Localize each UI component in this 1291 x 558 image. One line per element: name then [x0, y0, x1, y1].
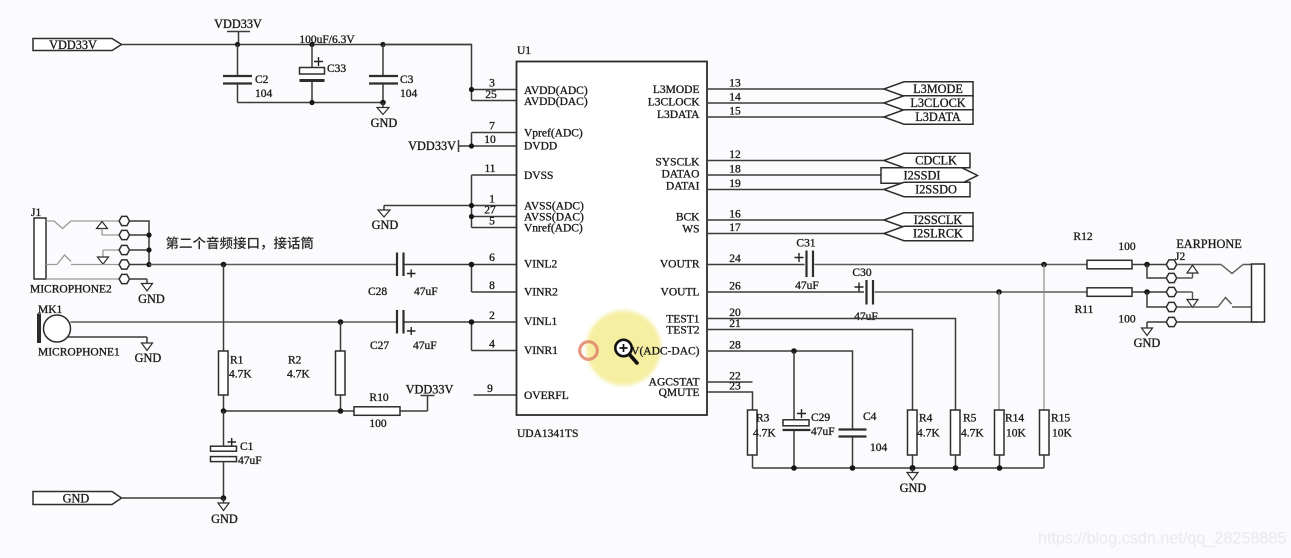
svg-text:GND: GND: [138, 292, 165, 306]
svg-text:19: 19: [729, 178, 741, 190]
wire R11 to J2: [1132, 291, 1166, 293]
net flag CDCLK: [884, 153, 970, 167]
pin J2-3: [1166, 287, 1176, 296]
svg-text:WS: WS: [682, 224, 699, 236]
wire pin14: [707, 102, 884, 104]
svg-text:21: 21: [729, 318, 741, 330]
capacitor C30: [852, 267, 877, 323]
resistor R12: [1073, 231, 1135, 269]
wire J2 pin4 branch: [1147, 292, 1166, 307]
wire AVSS ground: [384, 205, 472, 207]
wire R10 to VDD33V: [400, 396, 428, 412]
svg-text:V(ADC-DAC): V(ADC-DAC): [631, 346, 700, 358]
svg-text:GND: GND: [1134, 336, 1161, 350]
jack J1 switch arrow down: [98, 250, 120, 264]
svg-text:L3DATA: L3DATA: [915, 110, 961, 124]
ground symbol at J2: [1134, 322, 1161, 350]
svg-text:4.7K: 4.7K: [229, 369, 252, 381]
svg-text:104: 104: [870, 442, 888, 454]
pin J1-1: [119, 216, 129, 225]
wire pin9 stub: [474, 394, 517, 396]
svg-text:C30: C30: [852, 267, 871, 279]
svg-text:GND: GND: [135, 351, 162, 365]
svg-text:100uF/6.3V: 100uF/6.3V: [299, 34, 355, 46]
wire J2 sleeve: [1147, 321, 1258, 323]
svg-text:C3: C3: [400, 74, 414, 86]
net flag L3DATA: [884, 110, 973, 124]
wire MK1 to C27: [71, 321, 397, 323]
microphone MK1: [37, 314, 71, 344]
svg-text:C33: C33: [327, 63, 346, 75]
svg-text:47uF: 47uF: [238, 455, 262, 467]
svg-text:23: 23: [729, 381, 741, 393]
svg-text:GND: GND: [900, 481, 927, 495]
capacitor C28: [368, 253, 438, 299]
node junction pin2: [469, 319, 475, 325]
svg-text:C31: C31: [796, 238, 815, 250]
node junction R14 ground: [997, 465, 1003, 471]
ground symbol at rail: [900, 468, 927, 495]
wire pin13: [707, 88, 884, 90]
power port VDD33V top: [214, 17, 262, 45]
svg-text:C28: C28: [368, 286, 387, 298]
svg-text:CDCLK: CDCLK: [915, 154, 957, 168]
wire capacitor bottom bus: [238, 102, 384, 104]
svg-text:R14: R14: [1005, 413, 1024, 425]
ground symbol below C1: [211, 498, 238, 526]
svg-text:SYSCLK: SYSCLK: [655, 157, 700, 169]
svg-text:VINR2: VINR2: [524, 287, 558, 299]
svg-text:4.7K: 4.7K: [961, 428, 984, 440]
svg-text:3: 3: [489, 78, 495, 90]
svg-text:VOUTR: VOUTR: [660, 259, 700, 271]
wire C30 to R11: [875, 291, 1088, 293]
svg-text:C1: C1: [240, 441, 254, 453]
wire pin18: [707, 174, 881, 176]
wire GND flag to C1: [122, 497, 224, 499]
svg-text:VINL2: VINL2: [524, 259, 557, 271]
op-amp U1 UDA1341TS body: [517, 62, 708, 416]
node junction R15 tap: [1041, 262, 1047, 268]
node junction J1 pin2: [146, 232, 151, 237]
wire pins 11 1 27 5 bracket: [472, 175, 517, 228]
svg-text:9: 9: [487, 383, 493, 395]
wire pin26 to C30: [707, 291, 864, 293]
node junction pin1: [469, 203, 474, 208]
svg-text:L3MODE: L3MODE: [913, 82, 963, 96]
node junction R5 ground: [953, 465, 959, 471]
svg-text:15: 15: [729, 106, 741, 118]
resistor R5: [951, 410, 985, 468]
svg-text:R15: R15: [1051, 413, 1070, 425]
svg-text:C29: C29: [811, 412, 830, 424]
power flag GND: [33, 492, 122, 506]
svg-text:47uF: 47uF: [854, 311, 878, 323]
wire J1 to C28: [149, 264, 397, 266]
capacitor C3: [369, 45, 418, 103]
svg-text:10K: 10K: [1052, 428, 1073, 440]
svg-text:47uF: 47uF: [414, 286, 438, 298]
svg-text:GND: GND: [63, 492, 90, 506]
resistor R4: [908, 410, 941, 468]
connector J1 body: [34, 218, 46, 279]
svg-text:4.7K: 4.7K: [753, 428, 776, 440]
capacitor C33 100uF/6.3V: [299, 34, 355, 103]
jack J2 tip contact: [1177, 265, 1252, 274]
svg-text:47uF: 47uF: [811, 426, 835, 438]
svg-text:OVERFL: OVERFL: [524, 390, 569, 402]
svg-text:R2: R2: [288, 355, 302, 367]
svg-text:26: 26: [729, 281, 741, 293]
node junction J1 pin3: [146, 247, 151, 252]
svg-text:104: 104: [255, 88, 273, 100]
svg-text:R3: R3: [756, 413, 770, 425]
svg-text:2: 2: [489, 310, 495, 322]
node junction C4 ground: [850, 465, 856, 471]
node junction R14 tap: [996, 289, 1002, 295]
svg-text:AVDD(DAC): AVDD(DAC): [524, 96, 588, 108]
svg-text:16: 16: [729, 209, 741, 221]
svg-text:R4: R4: [919, 413, 933, 425]
resistor R11: [1075, 288, 1136, 326]
svg-text:U1: U1: [517, 45, 531, 57]
svg-text:MICROPHONE2: MICROPHONE2: [30, 284, 112, 296]
svg-text:4.7K: 4.7K: [287, 369, 310, 381]
svg-text:5: 5: [489, 216, 495, 228]
svg-text:Vpref(ADC): Vpref(ADC): [524, 128, 583, 140]
U1 left pin names: [524, 85, 588, 402]
wire pins 7 10 bracket: [472, 133, 517, 147]
node junction R2 top: [338, 319, 344, 325]
wire rail to IC pins 3 25: [383, 45, 516, 101]
node junction C1 ground: [221, 495, 227, 501]
wire pin16: [707, 219, 884, 221]
node junction on rail at C3: [380, 42, 385, 47]
node junction R1 bottom: [221, 408, 227, 414]
resistor R15: [1040, 410, 1073, 468]
svg-text:DVSS: DVSS: [524, 170, 553, 182]
svg-text:UDA1341TS: UDA1341TS: [517, 428, 578, 440]
svg-text:47uF: 47uF: [795, 280, 819, 292]
ground symbol at J1: [138, 284, 165, 307]
svg-text:VDD33V: VDD33V: [408, 139, 456, 153]
svg-text:DATAO: DATAO: [661, 169, 699, 181]
wire pin12: [707, 160, 884, 162]
svg-text:11: 11: [484, 163, 495, 175]
svg-text:L3DATA: L3DATA: [657, 109, 700, 121]
node junction J2 pin3: [1144, 289, 1150, 295]
svg-text:L3MODE: L3MODE: [653, 84, 700, 96]
resistor R3: [748, 410, 777, 468]
capacitor C2: [223, 45, 273, 103]
wire R14 drop: [998, 292, 1000, 410]
capacitor C29: [783, 351, 835, 468]
wire pin17: [707, 233, 884, 235]
pin J1-4: [119, 260, 129, 269]
svg-text:DVDD: DVDD: [524, 141, 557, 153]
svg-text:MICROPHONE1: MICROPHONE1: [38, 347, 120, 359]
svg-text:DATAI: DATAI: [666, 181, 700, 193]
svg-text:C4: C4: [863, 411, 877, 423]
svg-text:VDD33V: VDD33V: [406, 383, 454, 397]
wire pin24 to C31: [707, 264, 805, 266]
wire MK1 lower to ground: [68, 337, 148, 343]
svg-text:17: 17: [729, 222, 741, 234]
wire VDD33V rail: [122, 44, 472, 46]
resistor R1: [219, 265, 253, 412]
annotation chinese note: [166, 236, 313, 249]
capacitor C4: [839, 411, 888, 468]
svg-text:28: 28: [729, 340, 741, 352]
ground symbol below C3: [371, 103, 398, 131]
svg-text:104: 104: [400, 88, 418, 100]
svg-text:14: 14: [729, 92, 741, 104]
pin J1-2: [119, 230, 129, 239]
node junction on rail at C2: [235, 42, 240, 47]
node junction J2 pin1: [1144, 262, 1150, 268]
svg-text:4: 4: [489, 339, 495, 351]
pin J2-5: [1166, 317, 1176, 326]
net flag I2SSDI: [881, 168, 978, 183]
svg-text:8: 8: [489, 280, 495, 292]
pin J2-4: [1166, 302, 1176, 311]
capacitor C1: [211, 411, 262, 498]
svg-text:C27: C27: [370, 340, 389, 352]
svg-text:GND: GND: [371, 116, 398, 130]
net flag L3MODE: [884, 82, 973, 96]
node junction bottom bus at C3: [380, 100, 386, 106]
node junction on rail at C33: [309, 42, 314, 47]
svg-text:4.7K: 4.7K: [917, 428, 940, 440]
capacitor C27: [370, 310, 437, 352]
pin J2-1: [1166, 260, 1176, 269]
svg-text:12: 12: [729, 149, 741, 161]
svg-text:I2SSCLK: I2SSCLK: [914, 213, 963, 227]
wire pin21 to R4: [707, 330, 913, 411]
jack J1 sleeve wire: [46, 278, 119, 280]
cursor halo ring: [580, 342, 598, 360]
svg-text:QMUTE: QMUTE: [659, 387, 700, 399]
svg-text:MK1: MK1: [38, 304, 63, 316]
svg-text:VDD33V: VDD33V: [214, 17, 262, 31]
svg-text:https://blog.csdn.net/qq_28258: https://blog.csdn.net/qq_28258885: [1038, 530, 1286, 548]
svg-text:24: 24: [729, 253, 741, 265]
svg-text:13: 13: [729, 78, 741, 90]
jack J2 switch arrow up: [1177, 265, 1198, 278]
node junction R4 ground: [910, 465, 916, 471]
wire C27 to pin2: [405, 322, 517, 351]
svg-text:6: 6: [489, 252, 495, 264]
svg-text:100: 100: [1118, 241, 1136, 253]
jack J2 switch arrow down: [1177, 292, 1198, 307]
wire C28 to pin6: [405, 265, 517, 293]
wire bias rail: [224, 410, 355, 412]
node junction bottom bus at C33: [309, 100, 314, 105]
svg-text:L3CLOCK: L3CLOCK: [910, 96, 965, 110]
node junction pin10: [469, 143, 474, 148]
power label VDD33V at DVDD: [408, 139, 471, 153]
svg-text:VDD33V: VDD33V: [49, 38, 97, 52]
svg-text:GND: GND: [372, 218, 399, 232]
svg-text:47uF: 47uF: [413, 340, 437, 352]
node junction pin6: [469, 262, 475, 268]
U1 right pin names: [631, 84, 700, 399]
pin J2-2: [1166, 273, 1176, 282]
svg-text:J1: J1: [31, 207, 41, 219]
svg-text:L3CLOCK: L3CLOCK: [648, 97, 700, 109]
svg-text:10K: 10K: [1006, 428, 1027, 440]
wire pin28 to C4: [707, 351, 853, 429]
wire pin20 to R5: [707, 319, 956, 411]
svg-text:100: 100: [369, 418, 387, 430]
svg-text:C2: C2: [255, 74, 269, 86]
svg-text:GND: GND: [211, 512, 238, 526]
svg-text:100: 100: [1118, 314, 1136, 326]
svg-text:R12: R12: [1073, 231, 1092, 243]
svg-text:10: 10: [484, 134, 496, 146]
wire pin23 to R3: [707, 392, 753, 410]
wire pin15: [707, 116, 884, 118]
wire pin19: [707, 189, 884, 191]
jack J1 switch arrow up: [97, 222, 120, 236]
wire R15 drop: [1043, 265, 1045, 411]
svg-text:25: 25: [485, 89, 497, 101]
cursor magnifier: [615, 340, 637, 363]
wire J2 pin2 branch: [1147, 265, 1166, 279]
wire C31 to R12: [815, 264, 1088, 266]
power port VDD33V at R10: [406, 383, 454, 397]
power flag VDD33V: [33, 38, 122, 52]
node junction at R1 top: [221, 262, 227, 268]
svg-text:TEST2: TEST2: [666, 325, 699, 337]
ground symbol at AVSS: [372, 206, 399, 233]
resistor R10: [354, 392, 400, 430]
svg-text:R1: R1: [230, 355, 244, 367]
node junction pin27: [469, 214, 474, 219]
net flag L3CLOCK: [884, 96, 973, 110]
svg-text:I2SSDO: I2SSDO: [915, 183, 957, 197]
connector J2 body: [1252, 264, 1265, 322]
net flag I2SLRCK: [884, 226, 973, 240]
pin J1-5: [119, 274, 129, 283]
node junction C29 ground: [791, 465, 797, 471]
svg-text:I2SLRCK: I2SLRCK: [913, 227, 963, 241]
resistor R14: [995, 410, 1027, 468]
svg-text:R11: R11: [1075, 304, 1094, 316]
jack J1 tip contact: [46, 221, 119, 229]
node junction C29 tap: [791, 348, 797, 354]
svg-text:BCK: BCK: [676, 212, 700, 224]
svg-text:VINR1: VINR1: [524, 345, 558, 357]
wire R12 to J2: [1132, 264, 1166, 266]
node junction pin3: [469, 87, 474, 92]
svg-text:J2: J2: [1175, 251, 1185, 263]
svg-text:I2SSDI: I2SSDI: [904, 169, 941, 183]
svg-text:Vnref(ADC): Vnref(ADC): [524, 223, 583, 235]
wire J1 sleeve to ground: [130, 279, 148, 284]
net flag I2SSCLK: [884, 213, 973, 227]
svg-text:R5: R5: [963, 413, 977, 425]
svg-text:7: 7: [489, 121, 495, 133]
svg-text:R10: R10: [369, 392, 388, 404]
wire ground rail: [753, 467, 1045, 469]
svg-text:18: 18: [729, 164, 741, 176]
node junction J1 pin4: [146, 262, 151, 267]
capacitor C31: [795, 238, 819, 293]
jack J1 ring contact: [46, 255, 119, 265]
jack J2 ring contact: [1177, 298, 1252, 308]
svg-text:VOUTL: VOUTL: [661, 287, 700, 299]
svg-text:VINL1: VINL1: [524, 316, 557, 328]
ground symbol at MK1: [135, 343, 162, 365]
wire pin22 stub: [707, 381, 753, 383]
net flag I2SSDO: [884, 182, 970, 196]
node junction R2 bottom: [338, 408, 344, 414]
pin J1-3: [119, 245, 129, 254]
resistor R2: [287, 322, 345, 411]
wire J1 tie bus: [130, 221, 150, 265]
svg-text:EARPHONE: EARPHONE: [1176, 237, 1242, 251]
